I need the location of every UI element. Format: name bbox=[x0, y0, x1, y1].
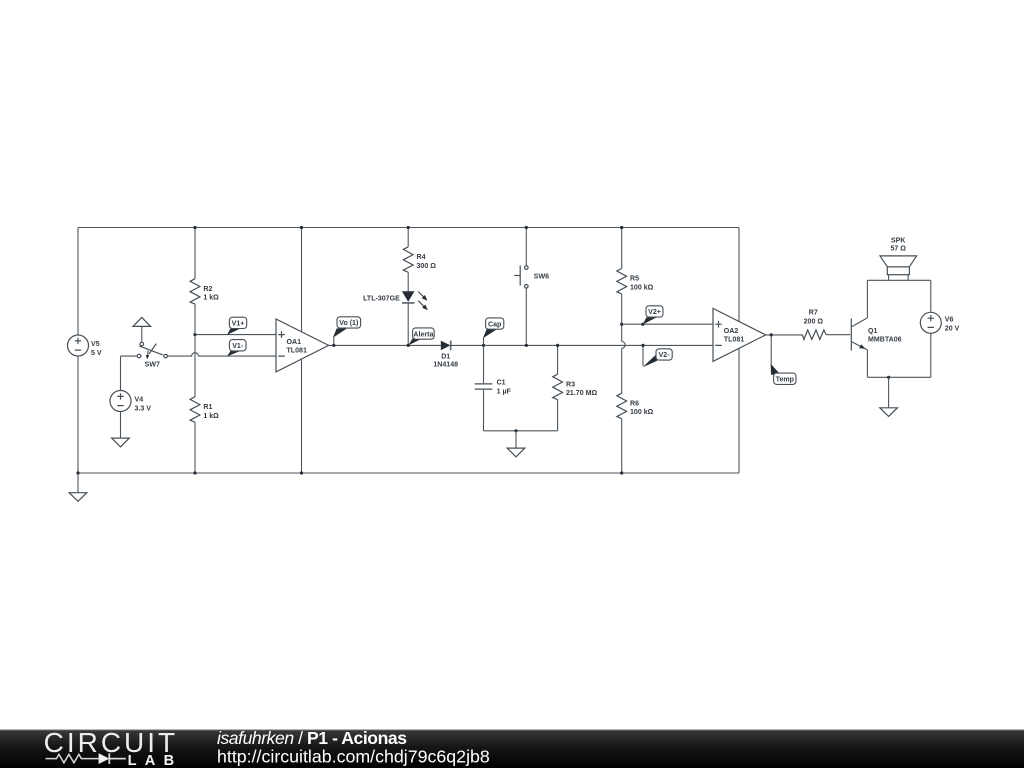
svg-text:SW6: SW6 bbox=[534, 273, 549, 280]
wire top rail bbox=[78, 227, 739, 229]
node: dot R1 bottom rail bbox=[193, 471, 196, 474]
ground (main, below V5 rail) bbox=[69, 473, 87, 501]
voltage source V4 bbox=[110, 391, 151, 413]
svg-text:V5: V5 bbox=[91, 341, 100, 348]
svg-text:V6: V6 bbox=[945, 317, 954, 324]
op-amp OA1 power wire bbox=[301, 228, 303, 474]
svg-text:R7: R7 bbox=[809, 309, 818, 316]
diode D1 bbox=[433, 341, 458, 369]
resistor R5 bbox=[617, 228, 654, 325]
wire right rail (OA2 power column) bbox=[738, 228, 740, 474]
node: dot ground C1/R3 bbox=[514, 429, 517, 432]
svg-text:Alerta: Alerta bbox=[413, 331, 433, 338]
svg-text:C1: C1 bbox=[497, 380, 506, 387]
logo resistor-diode graphic bbox=[46, 753, 126, 764]
node: dot R2 top rail bbox=[193, 226, 196, 229]
svg-text:20 V: 20 V bbox=[945, 325, 960, 332]
svg-text:1 kΩ: 1 kΩ bbox=[203, 295, 219, 302]
svg-text:D1: D1 bbox=[441, 353, 450, 360]
svg-text:1N4148: 1N4148 bbox=[433, 361, 458, 368]
LED LTL-307GE bbox=[363, 291, 428, 345]
node: dot V2+ flag anchor bbox=[641, 323, 644, 326]
svg-text:Q1: Q1 bbox=[868, 328, 877, 335]
svg-text:R5: R5 bbox=[630, 276, 639, 283]
svg-text:R3: R3 bbox=[566, 381, 575, 388]
wire bottom rail bbox=[78, 472, 739, 474]
svg-text:TL081: TL081 bbox=[287, 347, 307, 354]
svg-text:Temp: Temp bbox=[776, 377, 795, 384]
svg-text:300 Ω: 300 Ω bbox=[417, 263, 437, 270]
resistor R3 bbox=[553, 345, 598, 430]
svg-text:1 µF: 1 µF bbox=[497, 388, 512, 395]
svg-text:R4: R4 bbox=[417, 254, 426, 261]
node: dot R4 top rail bbox=[407, 226, 410, 229]
svg-text:SW7: SW7 bbox=[145, 362, 160, 369]
flag V1+ bbox=[227, 317, 247, 335]
node: dot R3 top bbox=[556, 344, 559, 347]
flag V2- bbox=[642, 345, 672, 367]
node: dot V2- flag anchor bbox=[641, 344, 644, 347]
voltage source V6 bbox=[920, 280, 959, 377]
node: dot V1+ junction bbox=[193, 333, 196, 336]
svg-text:21.70 MΩ: 21.70 MΩ bbox=[566, 390, 597, 397]
flag Temp bbox=[771, 335, 796, 385]
node: dot Vo bbox=[332, 344, 335, 347]
svg-text:1 kΩ: 1 kΩ bbox=[203, 413, 219, 420]
svg-text:Cap: Cap bbox=[488, 321, 502, 328]
wire OA1 output / main signal net bbox=[329, 344, 713, 346]
svg-text:OA1: OA1 bbox=[287, 339, 302, 346]
svg-text:V1+: V1+ bbox=[232, 321, 245, 328]
svg-text:isafuhrken / P1 - Acionas: isafuhrken / P1 - Acionas bbox=[217, 728, 407, 748]
switch SW6 bbox=[514, 228, 549, 346]
svg-text:MMBTA06: MMBTA06 bbox=[868, 337, 902, 344]
wire OA2 output bbox=[766, 334, 803, 336]
wire V1+ to op-amp bbox=[195, 334, 276, 336]
svg-text:LAB: LAB bbox=[128, 753, 183, 768]
svg-text:R1: R1 bbox=[203, 404, 212, 411]
resistor R4 bbox=[403, 228, 436, 292]
node: dot Temp anchor bbox=[770, 333, 773, 336]
footer bar bbox=[0, 730, 1024, 768]
svg-text:V2+: V2+ bbox=[648, 309, 661, 316]
node: dot OA1 power top bbox=[300, 226, 303, 229]
resistor R2 bbox=[190, 228, 219, 335]
svg-text:57 Ω: 57 Ω bbox=[890, 246, 906, 253]
op-amp OA2 bbox=[713, 308, 766, 361]
svg-text:R2: R2 bbox=[203, 286, 212, 293]
svg-text:3.3 V: 3.3 V bbox=[135, 405, 152, 412]
voltage source V5 bbox=[68, 228, 102, 474]
node: dot R6 bottom rail bbox=[620, 471, 623, 474]
wire V1- to op-amp (hop over R column) bbox=[167, 353, 276, 356]
node: dot OA1 power bottom bbox=[300, 471, 303, 474]
svg-text:Vo (1): Vo (1) bbox=[339, 320, 358, 327]
flag V1- bbox=[227, 340, 246, 357]
node: junction dot bottom-left bbox=[76, 471, 79, 474]
svg-text:R6: R6 bbox=[630, 400, 639, 407]
svg-text:V2-: V2- bbox=[659, 352, 671, 359]
flag V2+ bbox=[643, 306, 663, 325]
ground (below V4) bbox=[112, 412, 130, 447]
flag Vo (1) bbox=[333, 317, 361, 346]
node: dot Alerta bbox=[407, 344, 410, 347]
svg-text:100 kΩ: 100 kΩ bbox=[630, 409, 654, 416]
resistor R7 bbox=[802, 309, 850, 339]
svg-text:V4: V4 bbox=[135, 396, 144, 403]
svg-text:5 V: 5 V bbox=[91, 350, 102, 357]
ground (below C1/R3) bbox=[507, 431, 525, 457]
node: dot Q1 emitter ground bbox=[887, 376, 890, 379]
node: dot Cap bbox=[482, 344, 485, 347]
wire speaker loop top bbox=[867, 279, 930, 281]
svg-text:200 Ω: 200 Ω bbox=[804, 318, 824, 325]
resistor R1 bbox=[190, 335, 219, 473]
node: dot V2+ junction bbox=[620, 323, 623, 326]
flag Alerta bbox=[408, 328, 434, 346]
capacitor C1 bbox=[475, 345, 512, 430]
node: dot R5 top rail bbox=[620, 226, 623, 229]
ground (below Q1) bbox=[880, 377, 898, 416]
node: dot SW6 bottom bbox=[525, 344, 528, 347]
wire C1/R3 bottom bbox=[484, 430, 558, 432]
svg-text:TL081: TL081 bbox=[724, 336, 744, 343]
svg-text:SPK: SPK bbox=[891, 238, 906, 245]
wire hop (R column over signal wire) bbox=[622, 342, 625, 349]
op-amp OA1 bbox=[276, 319, 329, 372]
svg-text:http://circuitlab.com/chdj79c6: http://circuitlab.com/chdj79c6q2jb8 bbox=[217, 747, 490, 767]
svg-text:LTL-307GE: LTL-307GE bbox=[363, 296, 400, 303]
node: dot SW6 top rail bbox=[525, 226, 528, 229]
flag Cap bbox=[483, 318, 504, 346]
switch SW7 bbox=[133, 317, 167, 368]
wire V2+ to OA2 bbox=[622, 323, 713, 325]
speaker SPK bbox=[880, 238, 917, 281]
svg-text:100 kΩ: 100 kΩ bbox=[630, 284, 654, 291]
transistor Q1 bbox=[851, 280, 901, 377]
wire V4 to SW7 pole bbox=[121, 356, 138, 390]
svg-text:OA2: OA2 bbox=[724, 328, 739, 335]
svg-text:V1-: V1- bbox=[232, 343, 244, 350]
resistor R6 bbox=[617, 324, 654, 473]
wire speaker loop bottom bbox=[867, 376, 930, 378]
